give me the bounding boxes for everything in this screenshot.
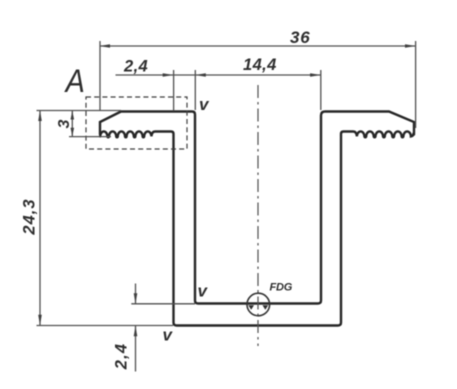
svg-text:FDG: FDG (270, 282, 293, 294)
dim 24,3 line (38, 111, 42, 326)
dim 2,4 top line (116, 73, 196, 77)
svg-text:2,4: 2,4 (113, 343, 131, 371)
dim 3 line (71, 111, 75, 137)
FDG weld point symbol circle (247, 293, 270, 316)
centerline (257, 85, 259, 346)
dim 24,3 extension top (37, 110, 122, 112)
svg-text:2,4: 2,4 (123, 58, 148, 76)
dim 14,4 line (195, 73, 320, 77)
dim 2,4 bottom line upper part (134, 284, 138, 304)
dim 2,4 top extension lines (173, 70, 175, 111)
svg-text:36: 36 (290, 28, 311, 47)
dim 36 extension lines (99, 41, 101, 110)
detail box A dashed (86, 97, 187, 149)
dim 2,4 bottom extension line (131, 303, 195, 305)
svg-text:A: A (64, 64, 85, 100)
svg-text:v: v (199, 95, 210, 114)
profile serrated underside and channel (100, 131, 413, 325)
profile outline main (100, 112, 414, 304)
dim 14,4 extension line right (320, 70, 322, 110)
svg-text:3: 3 (56, 119, 73, 128)
dim 2,4 bottom line lower part (134, 326, 138, 372)
dim 3 extension bottom (69, 136, 111, 138)
svg-text:v: v (198, 282, 209, 301)
dim 24,3 extension bottom (37, 325, 174, 327)
svg-text:14,4: 14,4 (243, 56, 277, 74)
FDG symbol inner marks (248, 305, 268, 310)
svg-text:24,3: 24,3 (21, 198, 39, 235)
dim 36 line (100, 44, 416, 48)
svg-text:v: v (163, 326, 174, 345)
